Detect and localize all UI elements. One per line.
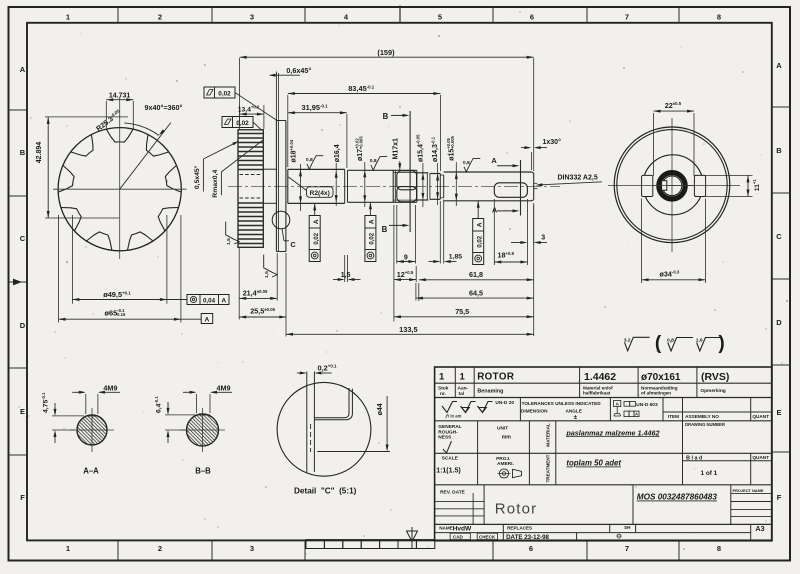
title row5: Blad / QUANT / 1 of 1 xyxy=(686,455,769,477)
fillet note R2(4x) xyxy=(289,177,334,197)
groove 1,85 xyxy=(440,174,443,200)
title row6: project name box xyxy=(731,488,772,517)
svg-text:B–B: B–B xyxy=(195,467,211,476)
rotor section side view lobe edge lines xyxy=(238,134,263,244)
dimension 3 at end xyxy=(511,205,547,245)
svg-text:SH: SH xyxy=(624,525,631,530)
section A-A dim 4,75 xyxy=(41,392,84,443)
margin row ticks left xyxy=(9,110,28,455)
section B-B circle hatched xyxy=(180,408,225,452)
svg-text:0,8: 0,8 xyxy=(667,338,674,344)
dimension 22 across flats xyxy=(654,101,695,176)
svg-text:4M9: 4M9 xyxy=(103,383,117,392)
shaft section dia17 outline xyxy=(348,170,394,202)
right end view flats xyxy=(642,175,653,196)
svg-text:8: 8 xyxy=(717,13,721,22)
dimension dia 49.5 xyxy=(72,215,187,304)
svg-text:A: A xyxy=(635,412,638,417)
svg-text:D: D xyxy=(20,321,26,330)
center drill marks at shaft end xyxy=(534,183,538,188)
right end view threaded bore ring M17 xyxy=(659,173,685,199)
svg-text:0,02: 0,02 xyxy=(236,120,249,127)
svg-text:ANGLE: ANGLE xyxy=(566,409,582,414)
row letters left xyxy=(20,65,26,502)
flange disc (raw stock dia70) xyxy=(276,121,286,252)
svg-text:3: 3 xyxy=(250,13,254,22)
svg-text:tal: tal xyxy=(459,391,465,397)
svg-text:GENERAL: GENERAL xyxy=(438,424,462,430)
detail C circle xyxy=(277,382,371,476)
svg-text:1: 1 xyxy=(460,372,466,383)
dimension dia 65 xyxy=(59,215,202,323)
roughness 1,5 on flange left face xyxy=(264,255,278,278)
svg-text:A: A xyxy=(476,222,483,227)
label dia18 xyxy=(289,139,302,211)
title row3: symbol boxes UN-D 603 xyxy=(614,400,658,416)
runout frame 0,02 A on dia17 xyxy=(365,202,376,261)
shaft centerline xyxy=(228,185,560,187)
svg-text:DRAWING NUMBER: DRAWING NUMBER xyxy=(685,422,725,427)
section cut A-A xyxy=(491,156,520,215)
svg-text:TOLERANCES UNLESS INDICATED: TOLERANCES UNLESS INDICATED xyxy=(522,401,602,406)
svg-text:HvdW: HvdW xyxy=(453,525,472,532)
label dia17 xyxy=(354,136,366,207)
title row7: replaces / date xyxy=(506,525,631,541)
svg-text:PROJECT NAME: PROJECT NAME xyxy=(733,488,764,493)
dimension 61,8 xyxy=(419,203,534,336)
row letters right xyxy=(776,61,782,502)
svg-text:1,6: 1,6 xyxy=(696,338,703,344)
svg-text:1 of 1: 1 of 1 xyxy=(701,470,718,477)
dimension 133,5 xyxy=(286,253,534,337)
svg-text:A: A xyxy=(369,219,376,224)
dimension 64,5 xyxy=(416,283,534,301)
right end view centerlines xyxy=(608,118,740,252)
svg-text:ITEM: ITEM xyxy=(668,414,679,419)
svg-text:D: D xyxy=(776,318,782,327)
svg-text:A–A: A–A xyxy=(83,467,99,476)
svg-text:B: B xyxy=(776,146,782,155)
label dia15 xyxy=(446,135,458,206)
svg-text:0,02: 0,02 xyxy=(477,235,483,247)
rotor front view centerlines xyxy=(53,97,187,259)
title row5: projection symbol cell xyxy=(496,456,521,478)
title row7: name / cad / check xyxy=(439,525,497,539)
svg-text:F: F xyxy=(20,493,25,502)
right end view middle circle dia34 boss xyxy=(643,155,703,215)
svg-text:0,8: 0,8 xyxy=(370,158,377,164)
surface note Rmax0,4 (rotated) xyxy=(212,140,263,198)
milled pocket on thread (section B-B location) xyxy=(397,171,417,202)
dimension 75,5 xyxy=(394,307,534,319)
svg-text:QUANT: QUANT xyxy=(752,455,769,460)
svg-text:Rotor: Rotor xyxy=(495,501,538,518)
svg-text:9: 9 xyxy=(404,254,408,261)
svg-text:1: 1 xyxy=(66,13,70,22)
svg-text:A3: A3 xyxy=(755,524,764,533)
position tolerance frame 0,04 A xyxy=(187,295,229,305)
roughness 1,5 on rotor left face xyxy=(226,222,240,245)
svg-text:3: 3 xyxy=(250,544,254,553)
chamfer note 0,6x45 xyxy=(269,66,312,77)
svg-text:F: F xyxy=(777,493,782,502)
svg-text:ROTOR: ROTOR xyxy=(477,372,514,383)
section A-A dim 4M9 xyxy=(72,383,120,414)
svg-text:toplam 50 adet: toplam 50 adet xyxy=(566,459,621,468)
svg-text:UN-D 603: UN-D 603 xyxy=(636,402,658,408)
title block vertical lines xyxy=(455,367,750,541)
thread M17x1 section xyxy=(393,170,417,203)
title row2 headers xyxy=(438,385,726,397)
dimension 25,5 xyxy=(239,307,286,319)
svg-text:REV. DATE: REV. DATE xyxy=(440,489,466,495)
datum feature box A (left view) xyxy=(201,314,213,324)
parallelism frame 0,02 upper xyxy=(204,87,277,121)
svg-text:1,5: 1,5 xyxy=(226,238,232,245)
svg-text:133,5: 133,5 xyxy=(399,325,418,334)
svg-text:of afmetingen: of afmetingen xyxy=(641,390,671,395)
svg-text:NAME: NAME xyxy=(439,526,453,531)
margin column ticks bottom xyxy=(118,540,679,560)
rotor section side view outline xyxy=(238,130,263,248)
roughness 0,8 on dia17 xyxy=(370,157,387,171)
svg-text:0,8: 0,8 xyxy=(306,157,313,163)
svg-text:Aan-: Aan- xyxy=(458,385,469,391)
roughness 0,8 on dia18 xyxy=(306,156,323,170)
svg-text:C: C xyxy=(20,234,26,243)
title row1: 1 | 1 | ROTOR | 1.4462 | dia70x161 | (RVS) xyxy=(439,371,729,383)
rotor front view outer circle xyxy=(58,128,181,251)
svg-text:0,02: 0,02 xyxy=(218,90,231,97)
svg-text:61,8: 61,8 xyxy=(469,270,483,279)
svg-text:A: A xyxy=(221,298,226,305)
section A-A circle hatched xyxy=(70,408,114,452)
svg-text:CAD: CAD xyxy=(453,534,464,539)
svg-text:A: A xyxy=(492,206,498,215)
detail C flange faces xyxy=(307,372,315,474)
svg-text:B: B xyxy=(383,112,389,121)
milled flat pocket right (section A-A location) xyxy=(494,183,527,198)
dimension 11 flat length xyxy=(706,175,761,196)
detail C shaft surface and groove xyxy=(314,388,390,452)
parallelism frame 0,02 lower xyxy=(222,117,262,131)
svg-text:CHECK: CHECK xyxy=(479,534,496,539)
dimension 83,45 xyxy=(288,84,441,171)
svg-text:1: 1 xyxy=(66,544,70,553)
shaft section dia14.3 xyxy=(430,174,440,200)
right end view outer circles xyxy=(614,127,730,243)
svg-text:0,8: 0,8 xyxy=(463,160,470,166)
title block horizontal lines xyxy=(435,383,772,532)
svg-text:TREATMENT: TREATMENT xyxy=(546,454,551,482)
label dia14,3 xyxy=(430,136,439,205)
svg-text:1,5: 1,5 xyxy=(341,272,351,279)
svg-text:0,04: 0,04 xyxy=(203,297,216,304)
svg-text:0,6x45°: 0,6x45° xyxy=(286,66,311,75)
svg-text:ASSEMBLY NO: ASSEMBLY NO xyxy=(685,414,719,419)
svg-text:REPLACES: REPLACES xyxy=(507,526,532,531)
svg-text:C: C xyxy=(290,240,296,249)
title row3: roughness symbols cell xyxy=(442,400,514,418)
title row4: general roughness xyxy=(438,424,462,453)
svg-text:A: A xyxy=(20,65,26,74)
dimension dia34 xyxy=(642,199,706,284)
svg-text:3.2: 3.2 xyxy=(624,337,631,343)
svg-text:ø65-0.1-0.15: ø65-0.1-0.15 xyxy=(105,308,126,317)
svg-text:): ) xyxy=(718,333,724,354)
thread relief groove 1,5 xyxy=(345,169,348,203)
dimension 42.894 left of rotor xyxy=(36,117,128,218)
dimension 14.731 top of rotor xyxy=(106,93,133,129)
label dia15,4 xyxy=(416,134,425,207)
shaft section dia15.4 xyxy=(417,173,430,200)
runout frame 0,02 A on dia18 xyxy=(309,203,320,261)
title row4: unit mm xyxy=(497,425,511,440)
svg-text:64,5: 64,5 xyxy=(469,289,483,298)
svg-text:B l a d: B l a d xyxy=(686,456,702,462)
flange upper extension lines xyxy=(276,72,278,121)
svg-text:B: B xyxy=(20,148,26,157)
fold mark strip bottom center xyxy=(306,540,435,549)
angular dimension arc 9x40=360 xyxy=(124,123,165,135)
svg-text:UN-D 20: UN-D 20 xyxy=(495,400,514,406)
centering arrow left margin xyxy=(9,279,28,286)
dimension 1,5 relief groove xyxy=(333,255,361,282)
label M17x1 xyxy=(392,138,401,170)
svg-text:UNIT: UNIT xyxy=(497,425,508,431)
column numbers bottom xyxy=(66,544,721,553)
label dia16,4 xyxy=(334,144,341,206)
chamfer note 0,5x45 (rotated) xyxy=(193,141,239,192)
detail C label leader and letter C xyxy=(282,229,296,249)
centering arrow right margin xyxy=(772,278,790,280)
svg-text:1x30°: 1x30° xyxy=(543,138,562,146)
svg-text:A: A xyxy=(313,219,320,224)
svg-text:NESS: NESS xyxy=(438,435,452,441)
svg-text:14.731: 14.731 xyxy=(109,93,131,100)
svg-text:Detail "C" (5:1): Detail "C" (5:1) xyxy=(294,487,357,496)
rotor radial line at 52 deg xyxy=(120,123,171,190)
svg-text:R2(4x): R2(4x) xyxy=(310,190,330,197)
svg-text:(: ( xyxy=(655,333,662,354)
surface finish legend 3.2 (0.8 1.6) xyxy=(624,333,725,354)
svg-text:ø70x161: ø70x161 xyxy=(641,372,681,383)
runout frame 0,02 A on dia15 xyxy=(473,201,484,265)
title block outer frame xyxy=(435,367,772,541)
svg-text:halffabrikaat: halffabrikaat xyxy=(583,390,611,395)
svg-text:4M9: 4M9 xyxy=(217,383,231,392)
svg-text:1,85: 1,85 xyxy=(449,254,462,261)
svg-text:B: B xyxy=(382,225,388,234)
svg-text:1.4462: 1.4462 xyxy=(584,371,616,383)
svg-text:M17x1: M17x1 xyxy=(392,138,399,160)
svg-text:1: 1 xyxy=(439,372,445,383)
svg-text:A: A xyxy=(205,316,210,323)
detail C dim 0,2 xyxy=(297,363,337,374)
rotor front view lobe profile (9 valleys) xyxy=(58,129,181,250)
title row3: tolerances cell xyxy=(521,401,601,421)
svg-text:Stuk: Stuk xyxy=(438,385,449,391)
title row6: rev date table xyxy=(435,489,485,516)
svg-text:E: E xyxy=(776,408,781,417)
shaft section dia18/dia16.4 outline xyxy=(288,169,345,203)
center hole note DIN332 A2,5 xyxy=(536,174,603,186)
svg-text:ROUGH-: ROUGH- xyxy=(438,429,458,435)
roughness 0,8 on dia15 xyxy=(463,158,480,172)
dimension 13,4 rotor width xyxy=(238,105,264,129)
section cut B-B xyxy=(382,111,410,234)
svg-text:±: ± xyxy=(574,414,578,421)
svg-text:QUANT: QUANT xyxy=(752,414,769,419)
dimension 21,4 xyxy=(239,248,277,320)
svg-text:A: A xyxy=(776,61,782,70)
svg-text:75,5: 75,5 xyxy=(455,307,469,316)
svg-text:DIMENSION: DIMENSION xyxy=(521,409,548,414)
svg-text:A: A xyxy=(491,156,497,165)
svg-text:nr.: nr. xyxy=(440,391,446,397)
svg-text:7: 7 xyxy=(625,13,629,22)
right end view keyway mark xyxy=(662,181,667,191)
svg-text:PROJ.: PROJ. xyxy=(496,456,510,462)
section B-B dim 6,4 xyxy=(154,396,195,443)
svg-text:9x40°=360°: 9x40°=360° xyxy=(145,103,183,112)
svg-text:DIN332 A2,5: DIN332 A2,5 xyxy=(558,174,598,181)
svg-text:mm: mm xyxy=(502,435,512,441)
title row3: ITEM ASSEMBLY NO QUANT xyxy=(668,414,769,419)
svg-text:6: 6 xyxy=(529,544,533,553)
margin column ticks top xyxy=(118,6,679,23)
svg-text:ø44: ø44 xyxy=(377,403,384,415)
svg-text:0,02: 0,02 xyxy=(370,232,376,244)
shaft section dia15 with end chamfer 1x30 xyxy=(444,172,534,201)
svg-text:5: 5 xyxy=(438,13,442,22)
svg-text:C: C xyxy=(776,232,782,241)
svg-text:6: 6 xyxy=(530,13,534,22)
svg-text:1,5: 1,5 xyxy=(264,271,270,278)
svg-text:7: 7 xyxy=(625,544,629,553)
svg-text:DATE 23-12-98: DATE 23-12-98 xyxy=(506,534,549,541)
svg-text:AMERI.: AMERI. xyxy=(497,461,514,467)
svg-text:MOS 0032487860483: MOS 0032487860483 xyxy=(637,493,718,502)
svg-text:2: 2 xyxy=(158,544,162,553)
svg-text:8: 8 xyxy=(717,544,721,553)
right end view centerline overdraw xyxy=(640,185,707,187)
title row5: scale cell xyxy=(436,455,461,474)
svg-text:(RVS): (RVS) xyxy=(701,371,729,383)
dimension (159) overall xyxy=(240,48,534,150)
svg-text:Benaming: Benaming xyxy=(477,389,503,395)
bottom centering arrow xyxy=(407,527,418,548)
dimension 31,95 xyxy=(288,103,347,168)
svg-text:MATERIAL: MATERIAL xyxy=(546,423,551,447)
svg-text:SCALE: SCALE xyxy=(442,455,459,461)
svg-text:,R in am: ,R in am xyxy=(445,413,462,418)
svg-text:(159): (159) xyxy=(377,48,395,57)
svg-text:ø16,4: ø16,4 xyxy=(334,144,341,162)
chamfer dimension 1x30 at shaft end xyxy=(521,138,561,171)
svg-text:paslanmaz malzeme 1.4462: paslanmaz malzeme 1.4462 xyxy=(565,428,659,437)
svg-text:0,5x45°: 0,5x45° xyxy=(193,165,201,189)
column numbers top xyxy=(66,13,721,22)
dimension 1,85 groove xyxy=(429,200,463,264)
neck between rotor and flange xyxy=(263,169,277,203)
rotor section side view hidden dashes mid xyxy=(240,175,263,199)
svg-text:42.894: 42.894 xyxy=(36,142,43,164)
detail C dim dia44 xyxy=(377,396,389,452)
svg-text:1:1(1.5): 1:1(1.5) xyxy=(436,468,461,475)
svg-text:2: 2 xyxy=(158,13,162,22)
detail C source circle on flange root xyxy=(272,211,290,229)
svg-text:Rmax0,4: Rmax0,4 xyxy=(212,170,219,198)
section B-B dim 4M9 xyxy=(183,383,232,413)
dimension 18+0.5 flat xyxy=(494,199,527,265)
dimension 12+0.5 xyxy=(394,205,416,322)
svg-text:E: E xyxy=(20,407,25,416)
margin row ticks right xyxy=(772,107,790,452)
svg-text:Opmerking: Opmerking xyxy=(700,388,725,394)
dimension 9 pocket length xyxy=(397,205,416,264)
svg-text:0,02: 0,02 xyxy=(314,232,320,244)
svg-text:3: 3 xyxy=(541,235,545,242)
